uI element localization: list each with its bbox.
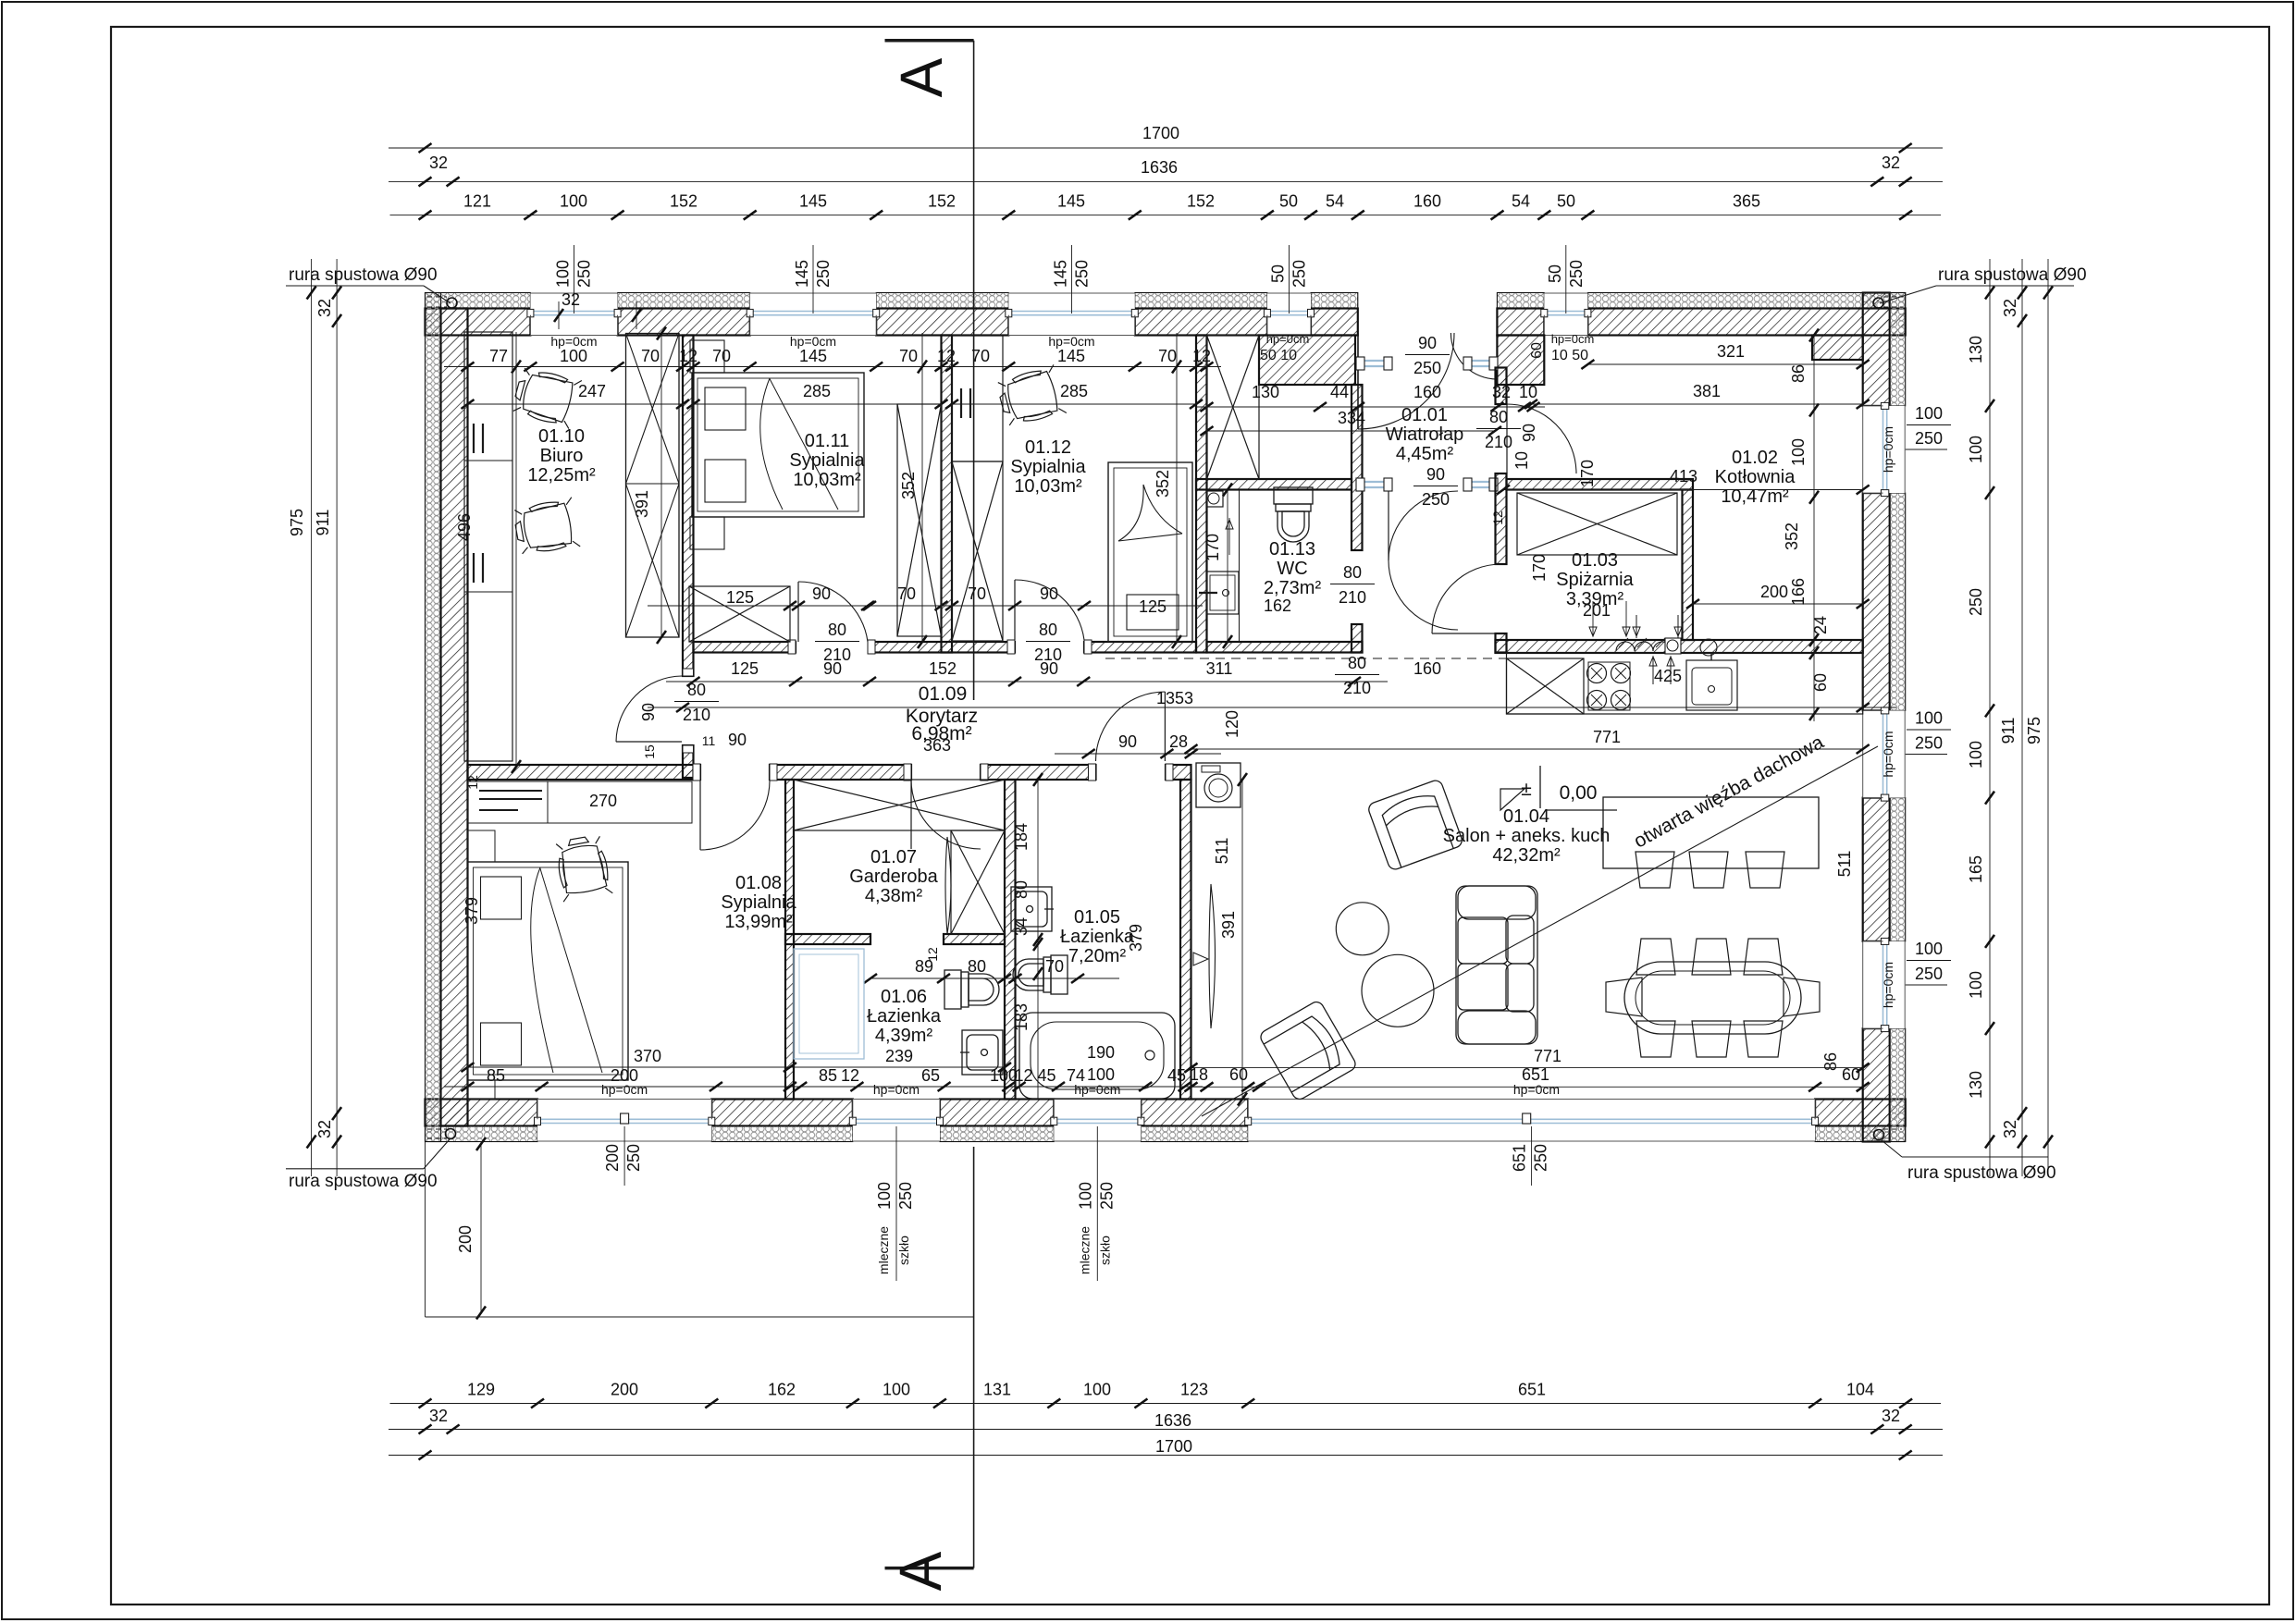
svg-text:mleczne: mleczne	[1077, 1226, 1092, 1274]
svg-text:90: 90	[1520, 424, 1538, 442]
svg-text:12: 12	[841, 1066, 859, 1085]
svg-text:90: 90	[812, 584, 831, 603]
svg-text:A: A	[888, 57, 955, 97]
door bedroom 01.08	[700, 781, 770, 850]
svg-text:100: 100	[1967, 741, 1985, 768]
svg-text:54: 54	[1512, 192, 1530, 211]
svg-text:32: 32	[2001, 1120, 2019, 1138]
door lazienka 01.05	[1164, 692, 1166, 761]
svg-text:hp=0cm: hp=0cm	[1881, 962, 1895, 1008]
top dim 1700	[389, 147, 1943, 149]
svg-text:250: 250	[1422, 490, 1450, 509]
svg-text:250: 250	[1532, 1144, 1550, 1172]
wiatrolap north opening 90/250	[1362, 360, 1387, 362]
svg-text:100: 100	[1083, 1381, 1111, 1399]
svg-text:10 50: 10 50	[1551, 348, 1588, 363]
svg-text:12,25m²: 12,25m²	[527, 465, 596, 486]
svg-text:60: 60	[1811, 673, 1830, 692]
svg-text:85: 85	[819, 1066, 837, 1085]
svg-text:250: 250	[1915, 734, 1943, 753]
svg-text:70: 70	[1045, 957, 1064, 976]
svg-text:hp=0cm: hp=0cm	[1881, 731, 1895, 777]
svg-text:184: 184	[1012, 823, 1031, 851]
svg-text:hp=0cm: hp=0cm	[873, 1082, 920, 1097]
svg-text:210: 210	[683, 706, 710, 724]
svg-text:80: 80	[1012, 880, 1031, 899]
svg-text:239: 239	[885, 1047, 913, 1065]
svg-text:200: 200	[611, 1381, 638, 1399]
svg-text:250: 250	[1290, 260, 1309, 288]
salon west wall V4	[1180, 780, 1191, 1100]
svg-text:651: 651	[1522, 1065, 1549, 1084]
svg-text:511: 511	[1835, 851, 1854, 878]
right dim 911/32	[2021, 259, 2023, 1176]
wall V2 between bedrooms 01.11/01.12	[942, 336, 953, 653]
svg-text:911: 911	[1999, 718, 2018, 744]
svg-text:100: 100	[1915, 940, 1943, 958]
exterior wall: left (solid)	[426, 293, 441, 1142]
top detail chain	[390, 215, 1942, 216]
wardrobe garderoba top	[794, 780, 1005, 830]
svg-text:4,45m²: 4,45m²	[1396, 444, 1454, 464]
wardrobe 01.12 west shelves	[952, 336, 1003, 461]
corridor north wall H1	[694, 642, 796, 653]
svg-text:01.08: 01.08	[735, 873, 782, 893]
svg-text:10,03m²: 10,03m²	[793, 470, 861, 490]
kotlownia dims	[1587, 363, 1862, 365]
svg-text:90: 90	[639, 703, 658, 721]
svg-text:160: 160	[1413, 659, 1441, 678]
svg-text:160: 160	[1413, 383, 1441, 401]
svg-text:145: 145	[793, 260, 811, 288]
right detail chain	[1989, 259, 1991, 1176]
biuro office chair 1	[511, 365, 582, 429]
svg-text:200: 200	[1760, 583, 1788, 601]
right dim 975	[2047, 259, 2049, 1176]
tv on west wall	[1209, 884, 1216, 1028]
svg-text:54: 54	[1326, 192, 1344, 211]
sofa	[1456, 886, 1537, 1044]
svg-text:130: 130	[1252, 383, 1279, 401]
svg-text:125: 125	[1139, 597, 1167, 616]
toilet WC	[1274, 487, 1313, 542]
WC up arrow	[1228, 518, 1230, 555]
section line A top	[973, 41, 975, 700]
svg-text:32: 32	[2001, 299, 2019, 317]
svg-text:250: 250	[1915, 965, 1943, 983]
svg-text:65: 65	[921, 1066, 940, 1085]
dining table	[1624, 962, 1801, 1034]
corridor 90/28 row	[1055, 753, 1221, 755]
svg-text:Sypialnia: Sypialnia	[789, 450, 865, 471]
svg-text:70: 70	[1158, 347, 1177, 365]
svg-text:270: 270	[589, 792, 617, 810]
svg-text:12: 12	[1192, 347, 1211, 365]
wall spizarnia west	[1496, 368, 1507, 405]
svg-text:44: 44	[1330, 383, 1349, 401]
wardrobe 01.12 west X	[952, 461, 1003, 641]
svg-text:250: 250	[575, 260, 594, 288]
svg-text:12 45: 12 45	[1014, 1066, 1055, 1085]
bottom dim 1700	[389, 1455, 1943, 1457]
svg-text:7,20m²: 7,20m²	[1068, 946, 1127, 966]
bottom detail chain	[390, 1403, 1942, 1405]
svg-text:hp=0cm: hp=0cm	[1881, 426, 1895, 473]
svg-text:WC: WC	[1277, 559, 1307, 579]
svg-text:01.04: 01.04	[1503, 806, 1549, 827]
garderoba/lazienka divider H3	[785, 934, 870, 944]
svg-text:100: 100	[1967, 436, 1985, 463]
svg-text:13,99m²: 13,99m²	[724, 912, 793, 932]
chair bedroom 01.12	[995, 364, 1067, 428]
svg-text:12: 12	[1490, 510, 1505, 525]
svg-text:131: 131	[983, 1381, 1011, 1399]
svg-text:70: 70	[899, 347, 918, 365]
svg-text:12: 12	[937, 347, 956, 365]
svg-text:975: 975	[2025, 717, 2043, 744]
svg-text:121: 121	[463, 192, 491, 211]
svg-text:250: 250	[1097, 1182, 1116, 1210]
exterior wall: right piers	[1863, 293, 1890, 406]
svg-text:145: 145	[799, 347, 827, 365]
svg-text:3,39m²: 3,39m²	[1566, 589, 1624, 609]
svg-text:379: 379	[463, 897, 481, 925]
svg-text:352: 352	[1154, 470, 1172, 498]
biuro office chair 2	[512, 498, 580, 557]
wiatrolap dims	[1196, 406, 1545, 408]
svg-text:0,00: 0,00	[1560, 782, 1598, 804]
WC vent box	[1207, 491, 1224, 507]
svg-text:mleczne: mleczne	[876, 1226, 891, 1274]
bottom dim 1636	[389, 1429, 1943, 1431]
svg-text:10: 10	[1519, 383, 1537, 401]
svg-text:311: 311	[1206, 659, 1233, 678]
svg-text:hp=0cm: hp=0cm	[1513, 1082, 1560, 1097]
windows: top wall	[530, 293, 617, 336]
top dim 1636	[389, 180, 1943, 182]
salon dims	[1191, 748, 1863, 750]
svg-text:18: 18	[1190, 1065, 1208, 1084]
svg-text:100: 100	[875, 1182, 894, 1210]
svg-text:911: 911	[314, 510, 332, 536]
dims 370/239 line	[468, 1066, 1006, 1068]
svg-text:rura spustowa Ø90: rura spustowa Ø90	[1938, 265, 2087, 285]
dining chairs bottom	[1636, 1021, 1675, 1057]
svg-text:32: 32	[315, 1120, 334, 1138]
svg-text:rura spustowa Ø90: rura spustowa Ø90	[289, 1172, 438, 1191]
wall V3 west of WC	[1196, 336, 1207, 653]
hob	[1587, 664, 1607, 683]
svg-text:145: 145	[1057, 347, 1085, 365]
svg-text:104: 104	[1846, 1381, 1874, 1399]
kitchen island table	[1603, 797, 1819, 868]
svg-text:100: 100	[1915, 404, 1943, 423]
door garderoba	[911, 780, 981, 849]
svg-text:190: 190	[1087, 1043, 1115, 1062]
svg-text:125: 125	[726, 588, 754, 607]
svg-text:145: 145	[1057, 192, 1085, 211]
wiatrolap south wall / WC north	[1196, 479, 1352, 490]
svg-text:1636: 1636	[1154, 1411, 1191, 1430]
biuro wardrobe	[626, 334, 680, 638]
svg-text:szkło: szkło	[896, 1236, 911, 1265]
washer salon niche	[1196, 763, 1241, 807]
svg-text:100: 100	[1967, 971, 1985, 999]
otwarta wiezba dachowa line	[1202, 746, 1878, 1116]
svg-text:4,39m²: 4,39m²	[875, 1026, 933, 1046]
dim 200 below plan	[480, 1144, 482, 1313]
desk bedroom 01.08	[468, 781, 693, 823]
svg-text:152: 152	[929, 659, 957, 678]
svg-text:50: 50	[1546, 264, 1564, 283]
svg-text:1636: 1636	[1141, 158, 1178, 177]
dining chair left	[1606, 977, 1642, 1016]
svg-text:130: 130	[1967, 336, 1985, 363]
coffee table small	[1336, 903, 1389, 955]
svg-text:80: 80	[1348, 654, 1366, 672]
svg-text:10: 10	[1512, 451, 1531, 470]
svg-text:77: 77	[489, 347, 508, 365]
svg-text:70: 70	[968, 584, 986, 603]
svg-text:152: 152	[670, 192, 697, 211]
svg-text:24: 24	[1811, 616, 1830, 634]
dining chairs top	[1636, 939, 1675, 975]
svg-text:90: 90	[1118, 732, 1137, 751]
svg-text:100: 100	[560, 192, 587, 211]
svg-text:60: 60	[1842, 1065, 1860, 1084]
svg-text:70: 70	[712, 347, 731, 365]
svg-text:90: 90	[1418, 334, 1437, 352]
svg-text:Kotłownia: Kotłownia	[1715, 467, 1796, 487]
right window labels	[1906, 449, 1947, 450]
svg-text:32: 32	[1882, 1407, 1900, 1425]
window mullion marks bottom	[621, 1113, 629, 1124]
svg-text:01.12: 01.12	[1025, 437, 1071, 458]
svg-text:129: 129	[467, 1381, 495, 1399]
svg-text:165: 165	[1967, 855, 1985, 883]
svg-text:334: 334	[1338, 409, 1365, 427]
biuro shelving column	[464, 332, 512, 761]
spizarnia east wall	[1683, 490, 1694, 641]
wall stub east of entrance	[1497, 336, 1544, 386]
bed bedroom 01.11	[692, 373, 864, 517]
svg-text:651: 651	[1518, 1381, 1546, 1399]
svg-text:4,38m²: 4,38m²	[865, 886, 923, 906]
svg-text:162: 162	[768, 1381, 796, 1399]
svg-text:285: 285	[803, 382, 831, 400]
svg-text:250: 250	[1915, 429, 1943, 448]
svg-text:391: 391	[633, 490, 651, 518]
svg-text:32: 32	[1492, 383, 1511, 401]
svg-text:10,47m²: 10,47m²	[1721, 486, 1789, 507]
svg-text:hp=0cm: hp=0cm	[1266, 332, 1310, 346]
mirror garderoba	[945, 837, 951, 934]
svg-text:01.07: 01.07	[870, 847, 917, 867]
svg-text:511: 511	[1213, 838, 1231, 865]
door spizarnia	[1432, 564, 1501, 633]
svg-text:80: 80	[1343, 563, 1362, 582]
bottom window labels	[623, 1126, 625, 1186]
svg-text:120: 120	[1223, 710, 1241, 738]
windows: right wall	[1863, 406, 1906, 493]
svg-text:1700: 1700	[1155, 1437, 1192, 1456]
svg-text:250: 250	[1413, 359, 1441, 377]
door biuro	[616, 741, 682, 743]
room width dims bedrooms	[694, 403, 942, 405]
svg-text:651: 651	[1511, 1144, 1529, 1172]
svg-text:szkło: szkło	[1097, 1236, 1112, 1265]
svg-text:2,73m²: 2,73m²	[1264, 578, 1322, 598]
svg-text:45: 45	[1167, 1066, 1186, 1085]
svg-text:32: 32	[562, 290, 580, 309]
svg-text:210: 210	[1485, 433, 1512, 451]
svg-text:01.05: 01.05	[1074, 907, 1120, 928]
wardrobe 01.11 east	[897, 404, 942, 636]
left dim 911/32	[336, 259, 338, 1176]
svg-text:145: 145	[1052, 260, 1070, 288]
svg-text:352: 352	[1783, 523, 1801, 550]
svg-text:50: 50	[1279, 192, 1298, 211]
svg-text:42,32m²: 42,32m²	[1492, 845, 1561, 866]
svg-text:250: 250	[1567, 260, 1586, 288]
kitchen counter	[1507, 653, 1863, 714]
toilet 01.05	[1013, 955, 1068, 994]
svg-text:160: 160	[1413, 192, 1441, 211]
svg-text:80: 80	[1039, 621, 1057, 639]
svg-text:90: 90	[1040, 659, 1058, 678]
door bedroom 01.12	[1015, 580, 1084, 640]
svg-text:A: A	[887, 1551, 954, 1591]
svg-text:250: 250	[1073, 260, 1092, 288]
armchair rotated top	[1367, 779, 1464, 871]
WC dim 170	[1227, 490, 1228, 643]
svg-text:365: 365	[1733, 192, 1760, 211]
wardrobe garderoba right	[951, 830, 1005, 934]
svg-text:74: 74	[1067, 1066, 1085, 1085]
kitchen cabinet X	[1507, 658, 1585, 714]
svg-text:771: 771	[1593, 728, 1621, 746]
svg-text:rura spustowa Ø90: rura spustowa Ø90	[1907, 1163, 2056, 1183]
level mark 0,00	[1539, 766, 1541, 808]
svg-text:1353: 1353	[1156, 689, 1193, 707]
svg-text:250: 250	[814, 260, 833, 288]
svg-text:100: 100	[1087, 1065, 1115, 1084]
dims lazienka row	[870, 977, 1119, 979]
corridor 80/210 labels	[815, 621, 859, 664]
svg-text:90: 90	[1426, 465, 1445, 484]
svg-text:01.03: 01.03	[1572, 550, 1618, 571]
sink WC	[1207, 572, 1240, 614]
svg-text:15: 15	[642, 744, 657, 759]
svg-text:771: 771	[1534, 1047, 1562, 1065]
svg-text:100: 100	[560, 347, 587, 365]
entrance double door	[1357, 333, 1359, 429]
svg-text:152: 152	[928, 192, 956, 211]
svg-text:247: 247	[578, 382, 606, 400]
sink 01.05	[1011, 887, 1054, 931]
svg-text:50: 50	[1557, 192, 1575, 211]
svg-text:rura spustowa Ø90: rura spustowa Ø90	[289, 265, 438, 285]
svg-text:125: 125	[731, 659, 759, 678]
svg-text:28: 28	[1169, 732, 1188, 751]
svg-text:10,03m²: 10,03m²	[1014, 476, 1082, 497]
svg-text:90: 90	[823, 659, 842, 678]
svg-text:200: 200	[611, 1066, 638, 1085]
svg-text:285: 285	[1060, 382, 1088, 400]
svg-text:11: 11	[702, 733, 716, 748]
svg-text:166: 166	[1789, 578, 1808, 606]
dims 01.08 chain row	[444, 1086, 1203, 1088]
exterior wall: top piers	[426, 293, 531, 309]
svg-text:100: 100	[554, 260, 573, 288]
svg-text:170: 170	[1578, 460, 1597, 487]
svg-text:Biuro: Biuro	[540, 446, 584, 466]
armchair rotated bottom	[1258, 1000, 1358, 1102]
corridor upper chain	[648, 605, 1203, 607]
wall V1 between Biuro and bedroom 01.11	[683, 336, 694, 677]
door kotlownia	[1507, 404, 1576, 473]
svg-text:12: 12	[679, 347, 697, 365]
door bedroom 01.11	[798, 582, 868, 642]
wall WC east	[1352, 385, 1363, 550]
svg-text:391: 391	[1219, 911, 1238, 939]
wall hooks semicircles	[1616, 642, 1635, 651]
open passage dashed line corridor/salon	[1105, 658, 1506, 659]
svg-text:370: 370	[634, 1047, 661, 1065]
svg-text:1700: 1700	[1142, 124, 1179, 142]
svg-text:60: 60	[1229, 1065, 1248, 1084]
svg-text:70: 70	[641, 347, 660, 365]
dims garderoba column	[1037, 780, 1039, 1100]
spizarnia/kotlownia south wall	[1496, 640, 1863, 653]
svg-text:Sypialnia: Sypialnia	[721, 892, 796, 913]
bed bedroom 01.12 single	[1108, 462, 1192, 642]
wall stub below window W4	[1259, 336, 1355, 386]
svg-text:01.09: 01.09	[919, 683, 968, 705]
spizarnia storage	[1517, 493, 1677, 555]
svg-text:145: 145	[799, 192, 827, 211]
svg-text:01.11: 01.11	[805, 431, 850, 451]
svg-text:200: 200	[456, 1225, 475, 1253]
svg-text:80: 80	[1489, 408, 1508, 426]
svg-text:01.01: 01.01	[1401, 405, 1448, 425]
interior chain top rooms	[444, 366, 1221, 368]
left dim 975	[311, 259, 313, 1176]
svg-text:90: 90	[1040, 584, 1058, 603]
svg-text:85: 85	[487, 1066, 505, 1085]
svg-text:86: 86	[1789, 364, 1808, 383]
svg-text:01.06: 01.06	[881, 987, 927, 1007]
svg-text:363: 363	[923, 736, 951, 755]
svg-text:32: 32	[429, 154, 448, 172]
svg-text:32: 32	[1882, 154, 1900, 172]
svg-text:01.02: 01.02	[1732, 448, 1778, 468]
svg-text:321: 321	[1717, 342, 1745, 361]
svg-text:162: 162	[1264, 596, 1291, 615]
svg-text:975: 975	[288, 509, 306, 536]
closet wiatrolap strip	[1207, 336, 1260, 480]
vertical dims bedrooms	[921, 333, 923, 642]
svg-text:32: 32	[429, 1407, 448, 1425]
svg-text:200: 200	[603, 1144, 622, 1172]
svg-text:425: 425	[1654, 667, 1682, 685]
chair bedroom 01.08	[553, 834, 612, 902]
svg-text:hp=0cm: hp=0cm	[1551, 332, 1595, 346]
svg-text:90: 90	[728, 731, 747, 749]
corridor south wall H2	[468, 765, 701, 780]
exterior wall: bottom piers	[426, 1100, 538, 1126]
kitchen sink	[1686, 660, 1737, 710]
